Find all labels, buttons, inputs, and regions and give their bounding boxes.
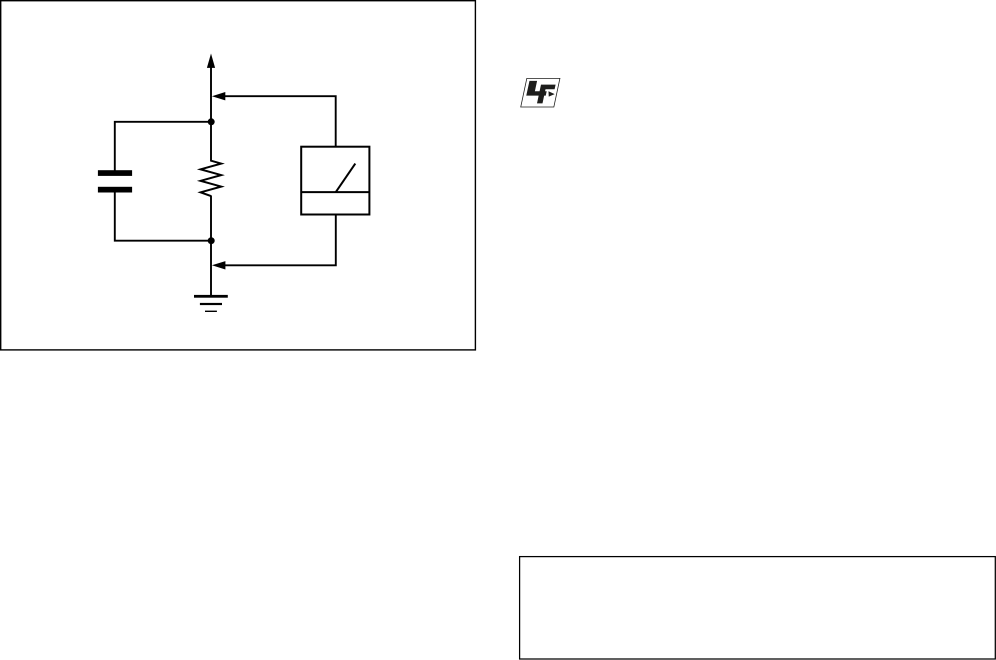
wire: main vertical net (lower segment) <box>210 196 212 296</box>
meter M (scale divider line) <box>301 191 369 193</box>
logo (manufacturer mark, skewed parallelogram with 4F monogram) <box>521 78 560 107</box>
capacitor (bottom plate) <box>98 187 132 193</box>
node B: bottom junction dot <box>208 237 215 244</box>
meter M (needle) <box>336 164 356 193</box>
wire: bottom feedback wire from meter to main net <box>225 215 336 266</box>
resistor <box>201 161 222 196</box>
arrowhead: left arrow into main net (bottom) <box>212 261 226 269</box>
node A: top junction dot <box>208 118 215 125</box>
schematic frame (figure border) <box>1 1 476 350</box>
arrowhead: left arrow into main net (top) <box>212 92 225 100</box>
wire: top feedback wire from meter to main net <box>225 96 336 147</box>
wire: capacitor bottom lead <box>115 192 211 241</box>
footer box (empty information frame) <box>520 557 996 659</box>
ground <box>194 295 228 312</box>
wire: main vertical net (upper segment) <box>210 67 212 162</box>
capacitor (top plate) <box>98 170 132 176</box>
arrowhead: up arrow at top of main net <box>207 54 215 68</box>
wire: capacitor top lead <box>115 122 211 171</box>
meter M (galvanometer body) <box>301 147 369 215</box>
